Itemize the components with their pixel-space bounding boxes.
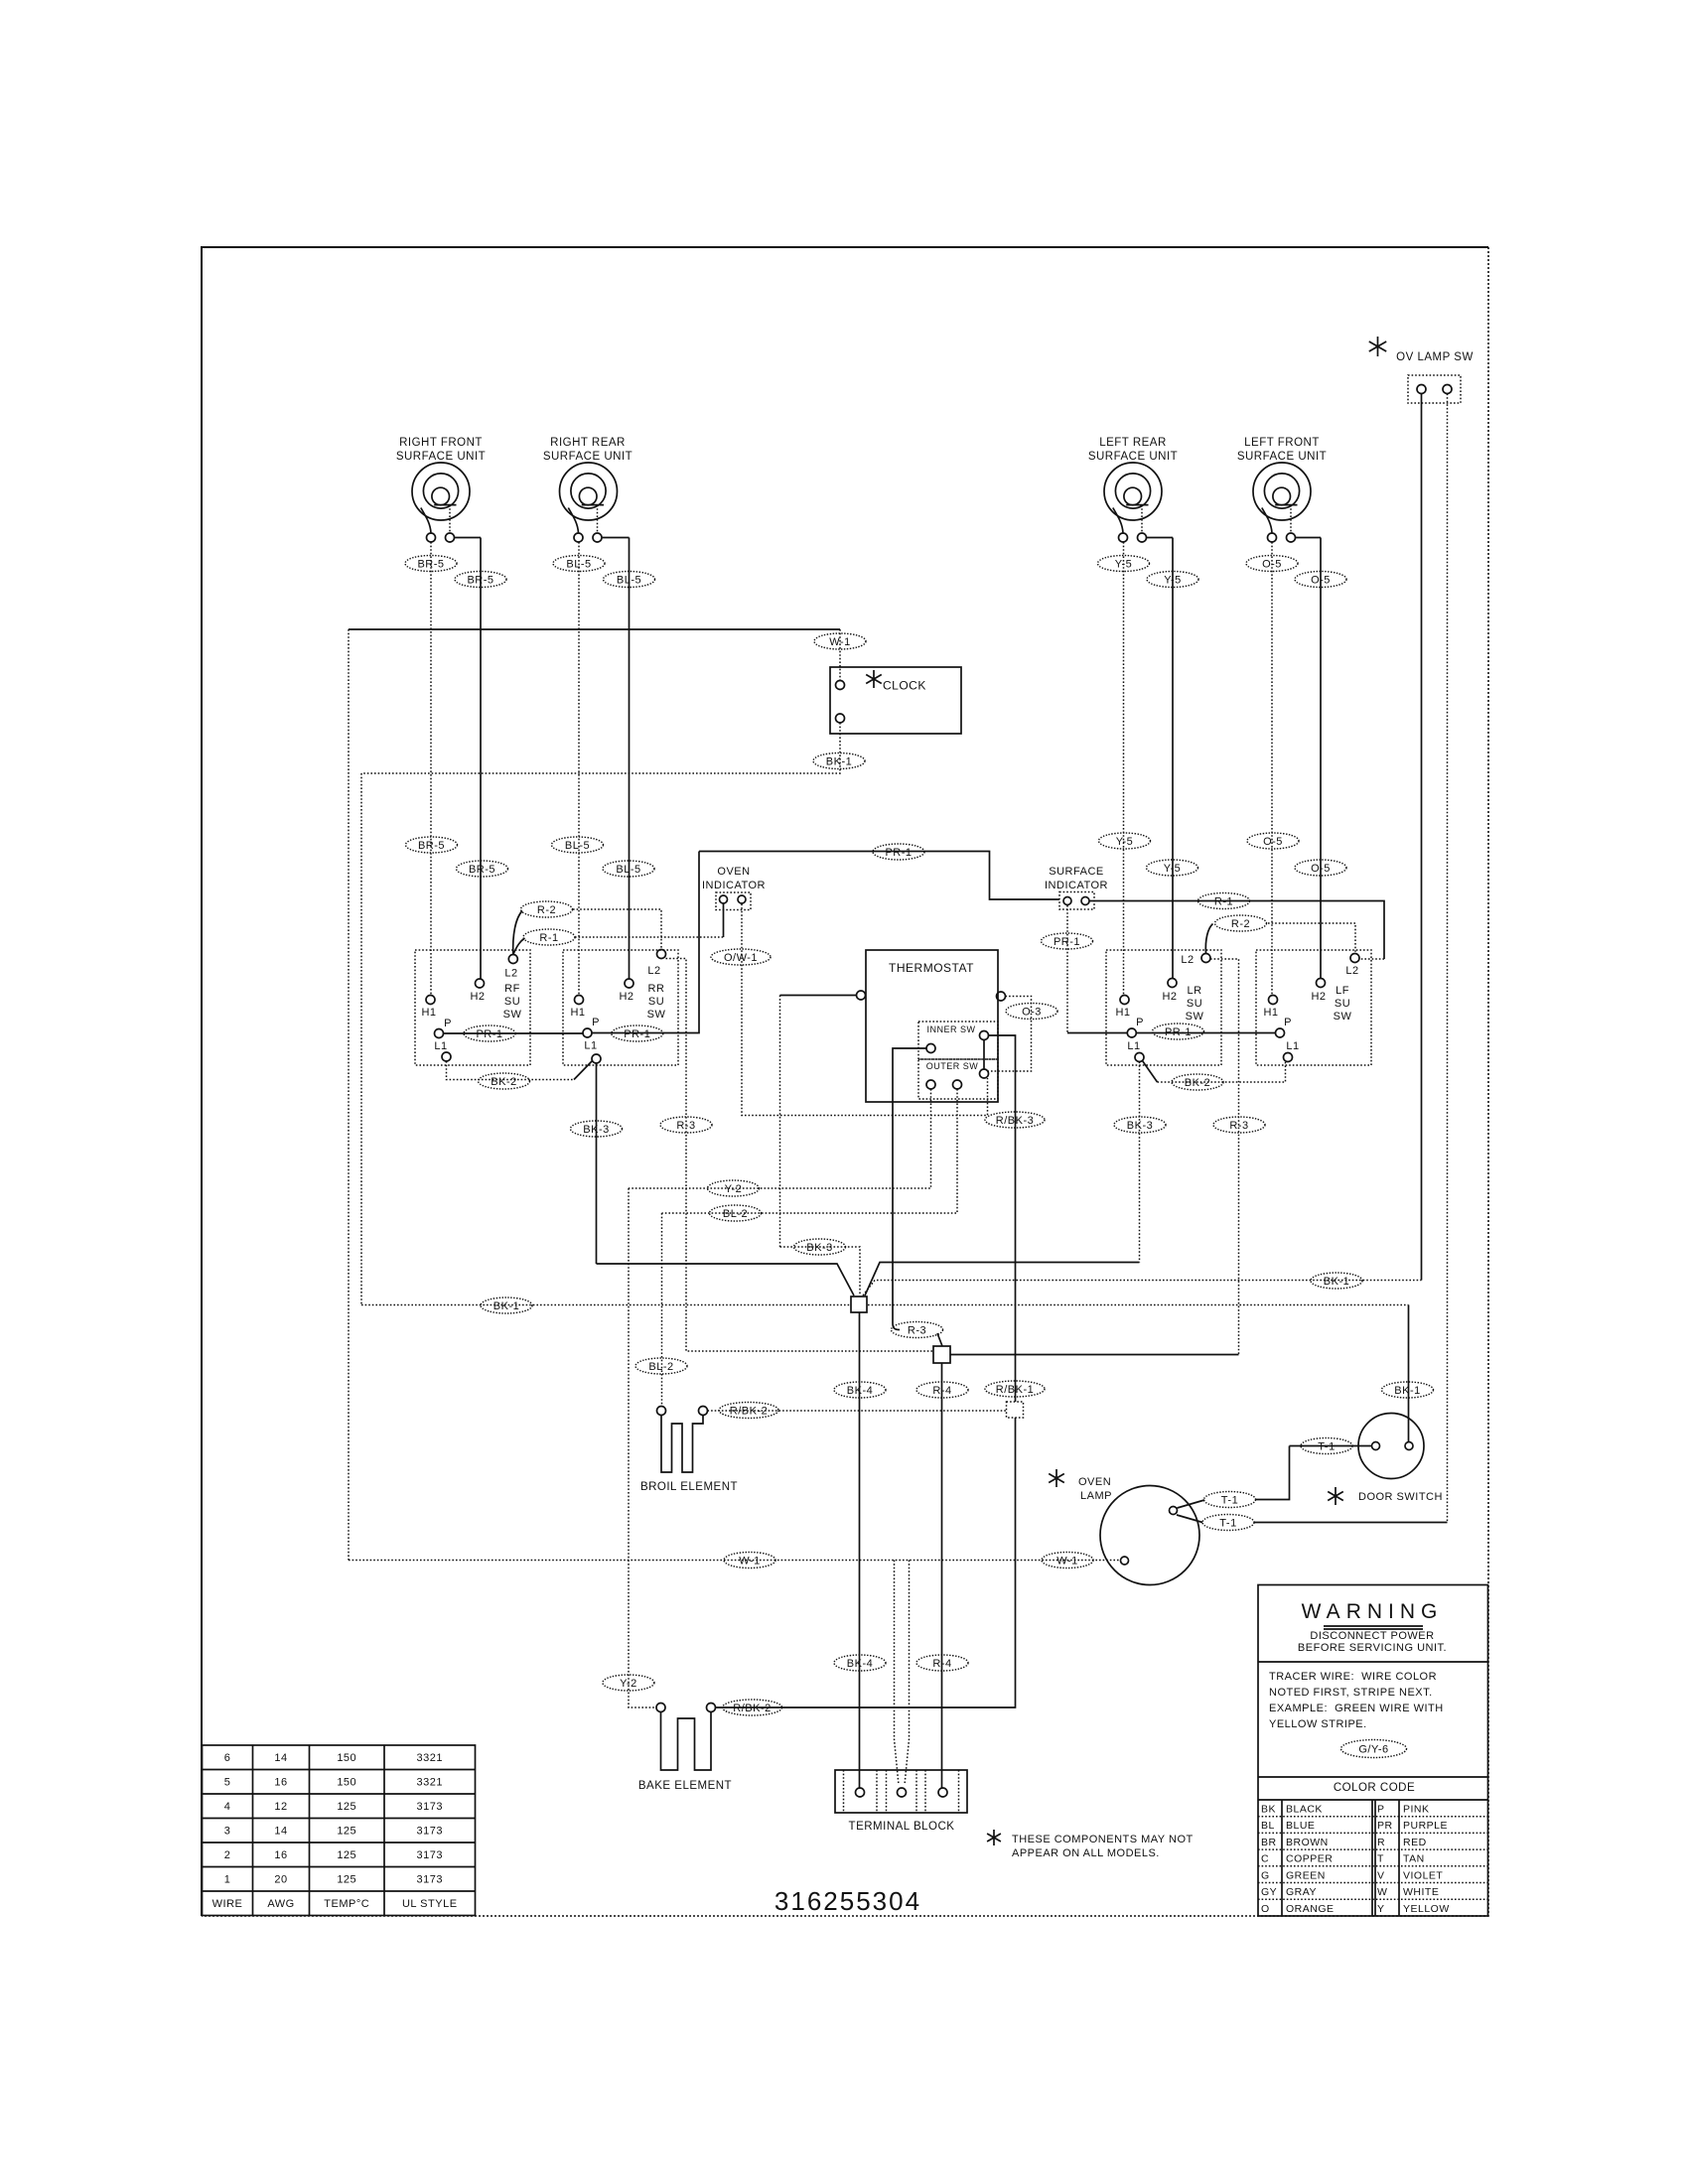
- wire label BK-4: [834, 1382, 886, 1398]
- svg-text:P: P: [1377, 1804, 1385, 1816]
- svg-text:125: 125: [337, 1874, 356, 1886]
- wire label W-1: [1042, 1553, 1093, 1569]
- wire label R-2: [1215, 915, 1267, 931]
- svg-text:T: T: [1377, 1853, 1384, 1865]
- wire label BL-2: [710, 1205, 762, 1221]
- svg-text:SW: SW: [647, 1009, 666, 1021]
- wire BK-1 junction J1 to door switch: [868, 1304, 1409, 1306]
- wire label W-1: [814, 633, 866, 649]
- wire O-5 LF left lead: [1271, 542, 1273, 996]
- svg-text:BL-2: BL-2: [723, 1208, 748, 1220]
- wire BL-2 outer switch to broil element: [662, 1089, 958, 1213]
- note components may not appear: [987, 1830, 1001, 1845]
- wire BK-3 into junction J1 top: [780, 1247, 861, 1296]
- svg-text:3: 3: [224, 1826, 231, 1838]
- svg-text:T-1: T-1: [1221, 1494, 1238, 1506]
- wire label T-1: [1204, 1492, 1256, 1508]
- svg-text:OVEN: OVEN: [1078, 1476, 1111, 1488]
- wire label BK-3: [571, 1121, 623, 1137]
- junction J1: [851, 1297, 867, 1312]
- svg-text:BL-5: BL-5: [565, 840, 590, 852]
- svg-text:OV LAMP SW: OV LAMP SW: [1396, 351, 1474, 363]
- svg-text:PR-1: PR-1: [885, 847, 912, 859]
- warning box: [1258, 1585, 1488, 1917]
- svg-text:2: 2: [224, 1849, 231, 1861]
- wire label R-3: [892, 1322, 943, 1338]
- wire gauge table: [203, 1745, 476, 1916]
- wire T-1 lamp to OV LAMP SW: [1177, 1515, 1202, 1523]
- svg-text:L1: L1: [1286, 1040, 1299, 1052]
- svg-text:BK-4: BK-4: [847, 1385, 873, 1397]
- svg-text:H2: H2: [1311, 991, 1326, 1003]
- svg-text:3173: 3173: [417, 1874, 443, 1886]
- svg-text:SU: SU: [1335, 998, 1350, 1010]
- svg-text:THESE COMPONENTS MAY NOT: THESE COMPONENTS MAY NOT: [1012, 1834, 1194, 1845]
- wire R-3 diagonal into junction J2: [937, 1333, 942, 1346]
- thermostat outer switch: [918, 1059, 998, 1099]
- wire label O-5: [1246, 556, 1298, 572]
- wire BK-3 LR L1 riser down: [1139, 1062, 1141, 1263]
- svg-text:1: 1: [224, 1874, 231, 1886]
- wire label PR-1: [1042, 933, 1093, 949]
- wire PR-1 left chain RF P to RR P: [444, 1032, 584, 1034]
- svg-text:LR: LR: [1187, 985, 1201, 997]
- wire label R-4: [916, 1382, 968, 1398]
- svg-text:3173: 3173: [417, 1826, 443, 1838]
- svg-text:TRACER WIRE: WIRE COLOR: TRACER WIRE: WIRE COLOR: [1269, 1671, 1437, 1683]
- svg-text:LEFT REAR: LEFT REAR: [1099, 437, 1167, 449]
- wire label Y-2: [708, 1180, 760, 1196]
- svg-text:150: 150: [337, 1777, 356, 1789]
- wire R-3 inner switch branch: [893, 1048, 926, 1323]
- svg-text:INNER SW: INNER SW: [927, 1024, 976, 1034]
- svg-text:BR-5: BR-5: [417, 558, 444, 570]
- wire Y-5 LR left lead: [1123, 542, 1125, 996]
- svg-text:H1: H1: [1115, 1007, 1130, 1019]
- svg-text:R-2: R-2: [1231, 918, 1250, 930]
- wire label PR-1: [612, 1025, 663, 1041]
- svg-text:O-5: O-5: [1311, 863, 1331, 875]
- oven lamp: [1049, 1469, 1064, 1487]
- svg-text:PR-1: PR-1: [1054, 936, 1080, 948]
- svg-text:SW: SW: [1334, 1011, 1352, 1023]
- svg-text:Y-2: Y-2: [725, 1183, 743, 1195]
- svg-text:CLOCK: CLOCK: [883, 679, 926, 693]
- wire R-3 LR branch into junction J2: [950, 1354, 1239, 1356]
- svg-text:PURPLE: PURPLE: [1403, 1820, 1448, 1832]
- svg-text:SURFACE UNIT: SURFACE UNIT: [543, 451, 633, 463]
- svg-text:G/Y-6: G/Y-6: [1358, 1743, 1388, 1755]
- svg-text:BL: BL: [1261, 1820, 1275, 1832]
- svg-text:SU: SU: [504, 996, 520, 1008]
- wire label R-1: [1198, 893, 1250, 909]
- svg-text:RED: RED: [1403, 1837, 1427, 1848]
- svg-text:BK-3: BK-3: [583, 1124, 609, 1136]
- svg-text:L2: L2: [504, 968, 517, 980]
- svg-text:14: 14: [274, 1752, 287, 1764]
- wire label BK-4: [834, 1655, 886, 1671]
- junction J2: [933, 1346, 950, 1363]
- wire T-1 into door switch: [1290, 1445, 1372, 1447]
- wire inner to outer switch right pins: [983, 1040, 985, 1070]
- svg-text:BK-2: BK-2: [491, 1076, 516, 1088]
- wire label R/BK-2: [719, 1403, 778, 1419]
- svg-text:R-4: R-4: [932, 1658, 951, 1670]
- thermostat box: [866, 950, 998, 1102]
- wire label BL-5: [552, 837, 604, 853]
- svg-text:R/BK-3: R/BK-3: [996, 1115, 1034, 1127]
- wire BK-3 run into junction J1: [597, 1264, 855, 1296]
- svg-text:RIGHT FRONT: RIGHT FRONT: [399, 437, 483, 449]
- svg-text:Y-5: Y-5: [1164, 863, 1182, 875]
- wire Y-5 LR right lead: [1172, 538, 1174, 979]
- svg-text:O/W-1: O/W-1: [724, 952, 758, 964]
- svg-text:DOOR SWITCH: DOOR SWITCH: [1358, 1491, 1443, 1503]
- wire W-1 bottom horizontal to oven lamp: [349, 1560, 1120, 1562]
- svg-text:BL-2: BL-2: [648, 1361, 673, 1373]
- svg-text:VIOLET: VIOLET: [1403, 1869, 1443, 1881]
- svg-text:BK-1: BK-1: [826, 755, 852, 767]
- wire PR-1 to LR P: [1067, 1032, 1127, 1034]
- svg-text:PR-1: PR-1: [624, 1028, 650, 1040]
- svg-text:BL-5: BL-5: [616, 864, 640, 876]
- broil element: [661, 1416, 703, 1473]
- svg-text:P: P: [444, 1018, 452, 1029]
- svg-text:INDICATOR: INDICATOR: [1045, 880, 1108, 891]
- svg-text:SW: SW: [503, 1009, 522, 1021]
- wire BL-2 riser to broil: [661, 1213, 663, 1407]
- wire label W-1: [724, 1553, 775, 1569]
- svg-text:3321: 3321: [417, 1752, 443, 1764]
- switch RR SU SW box: [563, 950, 678, 1065]
- wire label Y-2: [603, 1675, 654, 1691]
- svg-text:Y-2: Y-2: [620, 1678, 637, 1690]
- svg-text:O-5: O-5: [1311, 574, 1331, 586]
- wire T-1 up and over: [1255, 1446, 1290, 1500]
- svg-text:RF: RF: [504, 983, 520, 995]
- color code table: [1258, 1776, 1488, 1778]
- wire label BL-5: [604, 572, 655, 588]
- svg-text:H2: H2: [619, 991, 633, 1003]
- svg-text:BR-5: BR-5: [469, 864, 495, 876]
- wire BK-1 from clock bottom: [361, 723, 840, 773]
- svg-text:Y: Y: [1377, 1903, 1385, 1915]
- page border frame: [202, 247, 1488, 1916]
- svg-text:W-1: W-1: [1056, 1555, 1077, 1567]
- wire label R/BK-1: [985, 1381, 1045, 1397]
- svg-text:3321: 3321: [417, 1777, 443, 1789]
- wire R/BK-2 broil to junction J3: [708, 1410, 1007, 1412]
- wire BK-3 thermostat branch: [780, 995, 857, 997]
- svg-text:BK: BK: [1261, 1804, 1276, 1816]
- svg-text:H1: H1: [570, 1007, 585, 1019]
- svg-text:BL-5: BL-5: [617, 574, 641, 586]
- svg-text:R-1: R-1: [1214, 895, 1233, 907]
- wire BR-5 RF left lead: [430, 542, 432, 996]
- svg-text:125: 125: [337, 1849, 356, 1861]
- wire R/BK junction J3 to bake element: [716, 1418, 1016, 1707]
- wire label R-3: [660, 1117, 712, 1133]
- wire label BR-5: [405, 556, 457, 572]
- svg-text:PR: PR: [1377, 1820, 1393, 1832]
- svg-text:C: C: [1261, 1853, 1269, 1865]
- wire W-1 clock pin drop: [839, 629, 841, 681]
- wire BK-3 RR L1 riser down: [596, 1063, 598, 1264]
- svg-text:BROIL ELEMENT: BROIL ELEMENT: [640, 1481, 738, 1493]
- svg-text:PR-1: PR-1: [1165, 1026, 1192, 1038]
- wire R/BK-3 inner switch to junction J3: [989, 1035, 1016, 1402]
- wire Y-2 riser to bake: [629, 1188, 656, 1707]
- svg-text:3173: 3173: [417, 1801, 443, 1813]
- svg-text:L2: L2: [1181, 954, 1194, 966]
- wire label R-3: [1213, 1117, 1265, 1133]
- svg-text:GY: GY: [1261, 1886, 1277, 1898]
- svg-text:PR-1: PR-1: [476, 1028, 502, 1040]
- svg-text:BK-1: BK-1: [1324, 1276, 1349, 1288]
- svg-text:125: 125: [337, 1801, 356, 1813]
- wire label BK-1: [1382, 1382, 1434, 1398]
- svg-text:14: 14: [274, 1826, 287, 1838]
- wire label R-1: [523, 929, 575, 945]
- wire Y-2 outer switch to bake element: [629, 1089, 931, 1188]
- svg-text:BK-4: BK-4: [847, 1658, 873, 1670]
- svg-text:OUTER SW: OUTER SW: [926, 1061, 979, 1071]
- svg-text:316255304: 316255304: [774, 1886, 921, 1916]
- wire O-3 thermostat to outer switch: [989, 997, 1032, 1072]
- wire label R/BK-3: [985, 1112, 1045, 1128]
- svg-text:R/BK-2: R/BK-2: [733, 1703, 771, 1714]
- svg-text:LAMP: LAMP: [1080, 1490, 1112, 1502]
- wire label PR-1: [464, 1025, 515, 1041]
- wire BK-1 OV LAMP SW right lead: [1447, 394, 1449, 1523]
- wire label BL-2: [635, 1358, 687, 1374]
- svg-text:O-3: O-3: [1022, 1006, 1042, 1018]
- wire label Y-5: [1147, 572, 1198, 588]
- svg-text:UL STYLE: UL STYLE: [402, 1898, 458, 1910]
- wire label BR-5: [457, 861, 508, 877]
- svg-text:GRAY: GRAY: [1286, 1886, 1317, 1898]
- svg-text:P: P: [592, 1017, 600, 1028]
- wire R-1 dotted tail into LF L2: [1359, 958, 1384, 960]
- wire label PR-1: [1153, 1024, 1204, 1039]
- wire BK-2 LR L1 to LF L1: [1143, 1061, 1158, 1083]
- svg-text:R-2: R-2: [537, 904, 556, 916]
- svg-text:L2: L2: [1345, 965, 1358, 977]
- svg-text:Y-5: Y-5: [1164, 574, 1182, 586]
- svg-text:16: 16: [274, 1777, 287, 1789]
- svg-text:WARNING: WARNING: [1302, 1600, 1444, 1623]
- wire T-1 lamp to door switch: [1178, 1500, 1205, 1508]
- svg-text:PINK: PINK: [1403, 1804, 1430, 1816]
- svg-text:R-3: R-3: [676, 1120, 695, 1132]
- wire label BK-2: [479, 1073, 530, 1089]
- wire label Y-5: [1147, 860, 1198, 876]
- wire BL-5 RR right lead: [629, 538, 631, 980]
- svg-text:R/BK-2: R/BK-2: [730, 1405, 768, 1417]
- svg-text:4: 4: [224, 1801, 231, 1813]
- svg-text:SU: SU: [1187, 998, 1202, 1010]
- wire label O-3: [1006, 1004, 1057, 1020]
- wire label BL-5: [553, 556, 605, 572]
- svg-text:20: 20: [274, 1874, 287, 1886]
- svg-text:R/BK-1: R/BK-1: [996, 1384, 1034, 1396]
- wire label PR-1: [873, 844, 924, 860]
- svg-text:W-1: W-1: [739, 1555, 760, 1567]
- svg-text:R-3: R-3: [1229, 1120, 1248, 1132]
- svg-text:BL-5: BL-5: [566, 558, 591, 570]
- svg-text:W: W: [1377, 1886, 1387, 1898]
- svg-text:SW: SW: [1186, 1011, 1204, 1023]
- wire BK-1 junction J1 to OV LAMP SW: [863, 1281, 1422, 1297]
- svg-text:O: O: [1261, 1903, 1270, 1915]
- svg-text:EXAMPLE: GREEN WIRE WITH: EXAMPLE: GREEN WIRE WITH: [1269, 1703, 1444, 1714]
- svg-text:COPPER: COPPER: [1286, 1853, 1333, 1865]
- svg-text:YELLOW STRIPE.: YELLOW STRIPE.: [1269, 1718, 1367, 1730]
- svg-text:SU: SU: [648, 996, 664, 1008]
- wire R-1 surface indicator to LF L2: [1090, 901, 1385, 960]
- svg-text:H1: H1: [421, 1007, 436, 1019]
- svg-text:12: 12: [274, 1801, 287, 1813]
- wire R-2 RF L2 to RR L2: [573, 909, 661, 950]
- wire O-5 LF right lead: [1320, 538, 1322, 979]
- switch LF SU SW box: [1256, 950, 1371, 1065]
- wire R-1 to oven indicator: [575, 936, 724, 938]
- wire label O-5: [1295, 572, 1346, 588]
- wire O/W-1 oven indicator drop: [742, 904, 988, 1116]
- wire R-2 curve at RF L2: [513, 911, 522, 955]
- wire BK-3 LR run into junction J1: [865, 1263, 1140, 1297]
- wire BK-2 RF L1 to RR L1: [447, 1061, 575, 1080]
- svg-text:OVEN: OVEN: [717, 866, 750, 878]
- svg-text:LF: LF: [1336, 985, 1349, 997]
- svg-text:P: P: [1136, 1017, 1144, 1028]
- svg-text:BK-3: BK-3: [1127, 1120, 1153, 1132]
- wire label R-2: [521, 901, 573, 917]
- wire R-2 LR L2 to LF L2: [1268, 923, 1355, 954]
- wire BK-4 junction J1 to terminal block: [859, 1312, 861, 1788]
- svg-text:P: P: [1284, 1017, 1292, 1028]
- oven lamp switch OV LAMP SW: [1369, 337, 1386, 356]
- wire W-1 drop to terminal block left: [895, 1561, 900, 1786]
- svg-text:TERMINAL BLOCK: TERMINAL BLOCK: [849, 1821, 955, 1833]
- wire label G/Y-6 example: [1341, 1740, 1407, 1758]
- svg-text:APPEAR ON ALL MODELS.: APPEAR ON ALL MODELS.: [1012, 1847, 1160, 1859]
- svg-text:BAKE ELEMENT: BAKE ELEMENT: [638, 1780, 732, 1792]
- svg-text:ORANGE: ORANGE: [1286, 1903, 1335, 1915]
- wire label BL-5: [603, 861, 654, 877]
- svg-text:BR-5: BR-5: [467, 574, 493, 586]
- svg-text:W-1: W-1: [829, 636, 850, 648]
- svg-text:WHITE: WHITE: [1403, 1886, 1439, 1898]
- svg-text:T-1: T-1: [1219, 1517, 1236, 1529]
- wire label R/BK-2: [723, 1700, 782, 1715]
- svg-text:H2: H2: [470, 991, 485, 1003]
- wire BR-5 RF right lead: [480, 538, 482, 980]
- thermostat inner switch: [918, 1022, 998, 1059]
- svg-text:R-1: R-1: [539, 932, 558, 944]
- svg-text:SURFACE UNIT: SURFACE UNIT: [396, 451, 486, 463]
- svg-text:INDICATOR: INDICATOR: [702, 880, 766, 891]
- svg-text:V: V: [1377, 1869, 1385, 1881]
- wire label Y-5: [1098, 556, 1150, 572]
- wire label BK-3: [794, 1239, 846, 1255]
- svg-text:SURFACE UNIT: SURFACE UNIT: [1088, 451, 1178, 463]
- door switch: [1328, 1487, 1343, 1505]
- svg-text:R-4: R-4: [932, 1385, 951, 1397]
- wire label BR-5: [406, 837, 458, 853]
- svg-text:3173: 3173: [417, 1849, 443, 1861]
- clock box: [830, 667, 961, 734]
- svg-text:THERMOSTAT: THERMOSTAT: [889, 961, 974, 975]
- wire BL-5 RR left lead: [578, 542, 580, 996]
- wire R-3 curve into label: [893, 1323, 900, 1330]
- svg-text:WIRE: WIRE: [212, 1898, 243, 1910]
- svg-text:125: 125: [337, 1826, 356, 1838]
- wire W-1 left riser down to lamp row: [348, 629, 350, 1561]
- svg-text:DISCONNECT POWER: DISCONNECT POWER: [1310, 1630, 1434, 1642]
- svg-text:Y-5: Y-5: [1116, 836, 1134, 848]
- wire PR-1 surface indicator pin drop: [1066, 905, 1068, 1033]
- wire BK-1 OV LAMP SW left riser: [1421, 394, 1423, 1281]
- wire W-1 drop to terminal block right: [905, 1561, 910, 1786]
- bake element: [661, 1712, 712, 1771]
- svg-text:AWG: AWG: [267, 1898, 294, 1910]
- wire label O-5: [1247, 833, 1299, 849]
- svg-text:O-5: O-5: [1262, 558, 1282, 570]
- svg-text:YELLOW: YELLOW: [1403, 1903, 1450, 1915]
- svg-text:L1: L1: [434, 1040, 447, 1052]
- wire label O-5: [1295, 860, 1346, 876]
- svg-text:COLOR CODE: COLOR CODE: [1334, 1782, 1415, 1794]
- svg-text:BK-1: BK-1: [1394, 1385, 1420, 1397]
- svg-text:SURFACE: SURFACE: [1049, 866, 1103, 878]
- wire R-2 curve at LR L2: [1205, 924, 1212, 954]
- svg-text:BEFORE SERVICING UNIT.: BEFORE SERVICING UNIT.: [1298, 1642, 1447, 1654]
- wire label R-4: [916, 1655, 968, 1671]
- wire label T-1: [1202, 1515, 1254, 1531]
- wire BK-1 horizontal into junction J1: [361, 1304, 851, 1306]
- wire label O/W-1: [711, 949, 771, 965]
- svg-text:T-1: T-1: [1318, 1440, 1335, 1452]
- svg-text:L1: L1: [584, 1040, 597, 1052]
- wire R-3 from LR L2 down: [1210, 959, 1239, 1355]
- switch LR SU SW box: [1106, 950, 1221, 1065]
- wire label T-1: [1301, 1438, 1352, 1454]
- svg-text:150: 150: [337, 1752, 356, 1764]
- svg-text:BR: BR: [1261, 1837, 1277, 1848]
- svg-text:BK-3: BK-3: [806, 1242, 832, 1254]
- wire label BK-1: [1311, 1273, 1362, 1289]
- wire PR-1 top run to surface indicator: [699, 852, 1059, 900]
- wire label BK-3: [1114, 1117, 1166, 1133]
- terminal block: [835, 1770, 967, 1813]
- wire label BK-1: [813, 753, 865, 769]
- wire BK-1 drop to door switch: [1408, 1305, 1410, 1442]
- svg-text:G: G: [1261, 1869, 1270, 1881]
- svg-text:Y-5: Y-5: [1115, 558, 1133, 570]
- svg-text:BK-2: BK-2: [1185, 1077, 1210, 1089]
- svg-text:NOTED FIRST, STRIPE NEXT.: NOTED FIRST, STRIPE NEXT.: [1269, 1687, 1433, 1699]
- wire BK-1 left riser: [360, 773, 362, 1305]
- wire label BK-1: [481, 1297, 532, 1313]
- svg-text:TEMP°C: TEMP°C: [324, 1898, 369, 1910]
- svg-text:BROWN: BROWN: [1286, 1837, 1329, 1848]
- svg-text:BR-5: BR-5: [418, 840, 445, 852]
- svg-text:L2: L2: [647, 965, 660, 977]
- svg-text:GREEN: GREEN: [1286, 1869, 1326, 1881]
- svg-text:16: 16: [274, 1849, 287, 1861]
- wire label Y-5: [1099, 833, 1151, 849]
